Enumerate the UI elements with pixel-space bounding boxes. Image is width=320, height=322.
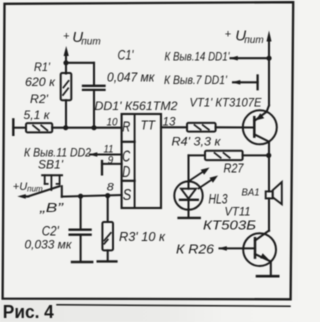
wire pin 11 with arrow out to DD2: [90, 153, 122, 155]
svg-text:SB1': SB1': [38, 158, 64, 172]
capacitor C2: [70, 196, 93, 262]
junction dot Vyv14: [266, 56, 271, 61]
svg-text:8: 8: [107, 182, 115, 194]
svg-text:C: C: [122, 149, 131, 166]
wire: right +Upit rail: [268, 40, 270, 106]
svg-text:+Uпит: +Uпит: [63, 29, 101, 47]
junction dot C1 bottom: [91, 125, 96, 130]
svg-text:R: R: [122, 119, 130, 136]
svg-text:R4' 3,3 к: R4' 3,3 к: [172, 135, 222, 149]
svg-text:„В”: „В”: [39, 201, 65, 215]
svg-text:BA1: BA1: [242, 187, 260, 199]
wire pin 13: [161, 126, 187, 128]
wire: lower net to IC pin 8: [62, 195, 122, 197]
svg-text:R2': R2': [30, 92, 49, 106]
svg-text:5,1 к: 5,1 к: [24, 108, 51, 122]
wire: pin10 net (R2 to IC pin 10): [52, 127, 121, 129]
+Upit small arrow (lower-left): [17, 194, 26, 199]
resistor R4 3,3k (horizontal): [187, 123, 254, 132]
transistor VT11 KT503B (NPN): [220, 231, 279, 277]
power arrow up (top-right): [267, 31, 272, 42]
junction dot C2: [78, 194, 83, 199]
svg-text:VT11: VT11: [225, 205, 251, 219]
wire: VT1 collector down to speaker: [268, 143, 270, 192]
wire: branch to C1: [66, 62, 94, 64]
capacitor C1: [83, 63, 105, 128]
svg-text:КТ503Б: КТ503Б: [203, 219, 256, 233]
svg-text:К R26: К R26: [176, 243, 214, 257]
IC DD1' K561TM2 trigger: [122, 114, 161, 208]
base arrow K R26: [218, 246, 227, 251]
svg-text:Рис. 4: Рис. 4: [3, 302, 54, 322]
svg-text:+Uпит: +Uпит: [13, 181, 43, 194]
resistor R2 5,1k (horizontal) with left terminal bar: [13, 119, 52, 134]
junction dot R1 bottom: [63, 125, 68, 130]
svg-text:VT1' КТ3107Е: VT1' КТ3107Е: [190, 95, 263, 109]
svg-text:0,047 мк: 0,047 мк: [107, 70, 155, 85]
wire pin 9 with terminal bar: [102, 163, 122, 165]
junction dot R3: [105, 193, 110, 198]
wire: +Upit stem down to R1: [65, 55, 67, 74]
switch SB1' (push button): [25, 175, 63, 197]
wire: speaker to VT11 collector: [268, 198, 270, 230]
resistor R1 620k (vertical): [61, 73, 72, 128]
svg-text:К Выв.14 DD1': К Выв.14 DD1': [165, 49, 231, 63]
svg-text:+Uпит: +Uпит: [225, 28, 264, 46]
svg-text:C1': C1': [118, 48, 134, 63]
svg-text:К Выв.7 DD1': К Выв.7 DD1': [164, 73, 228, 87]
svg-text:DD1' К561ТМ2: DD1' К561ТМ2: [95, 99, 178, 113]
stub to Vyv.7 DD1 with arrow and terminal bar: [233, 81, 258, 83]
speaker BA1: [266, 182, 282, 204]
resistor R27 (horizontal): [189, 151, 269, 160]
svg-text:620 к: 620 к: [25, 75, 56, 89]
svg-text:0,033 мк: 0,033 мк: [25, 237, 73, 251]
svg-text:R1': R1': [34, 60, 51, 74]
svg-text:R3' 10 к: R3' 10 к: [119, 229, 166, 244]
junction dot R27: [266, 153, 271, 158]
resistor R3 10k (vertical): [98, 196, 117, 262]
node junction dot at branch: [63, 60, 68, 65]
power arrow up (top-left): [64, 46, 69, 56]
wire to Vyv.14 DD1 with arrow: [231, 57, 270, 59]
svg-text:TT: TT: [141, 117, 156, 132]
LED HL3: [174, 155, 218, 218]
svg-text:D: D: [122, 164, 130, 181]
caption rule line: [57, 305, 290, 306]
svg-text:C2': C2': [42, 224, 59, 239]
transistor VT1 KT3107E (PNP): [243, 106, 277, 145]
svg-text:R27: R27: [224, 161, 245, 176]
svg-text:10: 10: [107, 117, 119, 129]
svg-text:S: S: [123, 187, 132, 204]
